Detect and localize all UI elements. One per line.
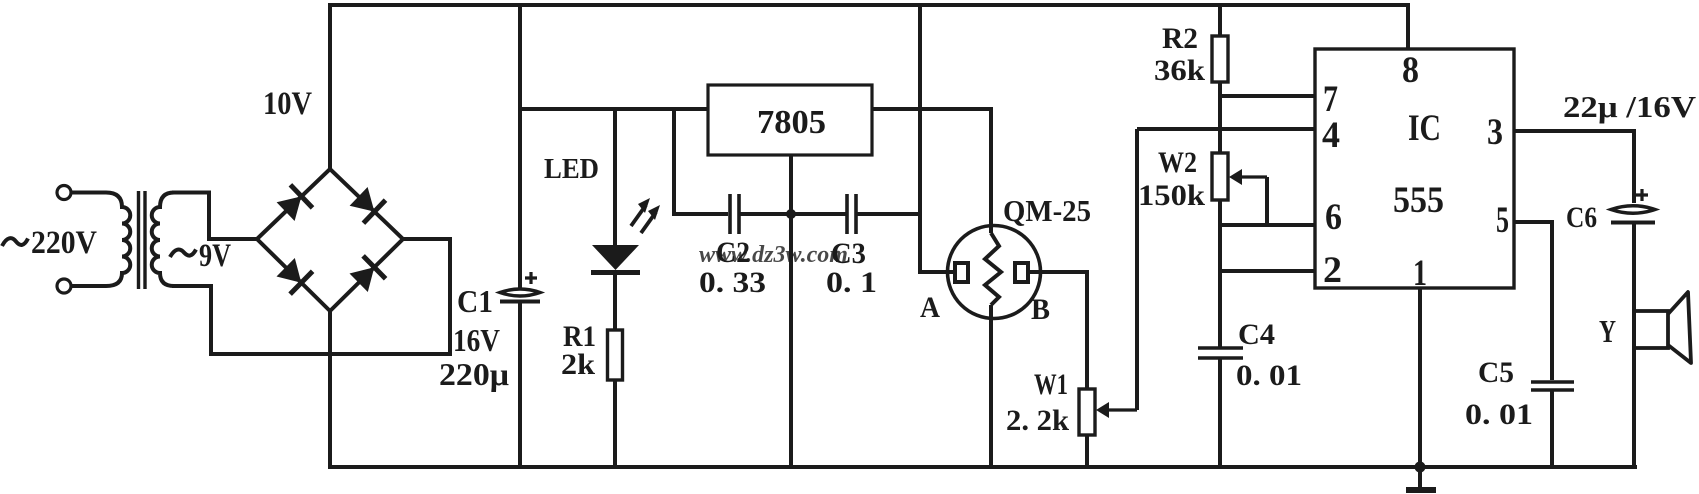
svg-text:C6: C6 <box>1566 201 1597 234</box>
svg-text:2k: 2k <box>561 348 595 381</box>
wire W1 wiper to pin4 <box>1135 129 1139 410</box>
LED D5 <box>592 245 639 270</box>
wire C2 drop <box>674 109 728 214</box>
diode D1 top-left <box>277 196 302 221</box>
wire R2 branch top <box>1218 5 1222 36</box>
svg-text:2: 2 <box>1323 250 1342 291</box>
junction dot 7805 gnd <box>786 209 796 219</box>
svg-text:C1: C1 <box>457 283 493 319</box>
wire R2 to W2 <box>1218 82 1222 153</box>
speaker Y <box>1634 311 1668 348</box>
wire pin2 <box>1220 269 1315 273</box>
capacitor C6 <box>1611 206 1655 214</box>
diode D3 bottom-left <box>277 258 302 283</box>
bridge rectifier diamond <box>257 169 403 311</box>
wire pin3 to C6 <box>1514 131 1634 203</box>
wire W2 wiper down to pin6 line <box>1265 177 1269 225</box>
svg-text:www.dz3w.com: www.dz3w.com <box>699 242 848 268</box>
wire 5V down to sensor A <box>920 5 955 272</box>
svg-text:Y: Y <box>1599 313 1616 349</box>
node input terminal top <box>57 186 71 200</box>
W2 wiper arrow <box>1229 169 1242 185</box>
svg-text:10V: 10V <box>263 86 312 122</box>
potentiometer W1 body <box>1079 389 1095 435</box>
capacitor C1 <box>500 289 540 296</box>
wire 7805 output <box>872 109 991 233</box>
transformer T1 secondary <box>152 193 174 287</box>
svg-text:IC: IC <box>1408 108 1441 149</box>
resistor R1 <box>608 330 623 380</box>
wire C1 branch lower <box>518 302 522 468</box>
capacitor C5 <box>1531 380 1574 384</box>
wire LED to R1 <box>613 272 617 330</box>
wire W1 to bottom rail <box>1085 435 1089 467</box>
wire 7805 gnd pin <box>789 155 793 467</box>
LED arrows <box>631 205 646 226</box>
C1 plus sign <box>525 272 537 284</box>
svg-text:9V: 9V <box>199 238 231 274</box>
capacitor C4 <box>1198 346 1243 350</box>
wire 10V feed to 7805 <box>520 107 708 111</box>
sensor terminal B square <box>1015 263 1028 282</box>
svg-text:A: A <box>920 291 940 324</box>
svg-text:16V: 16V <box>453 322 500 358</box>
wire C1 branch upper <box>518 5 522 289</box>
gas sensor QM-25 circle <box>948 226 1041 319</box>
node input terminal bottom <box>57 279 71 293</box>
potentiometer W2 body <box>1212 153 1228 200</box>
svg-text:W2: W2 <box>1158 146 1197 179</box>
svg-text:22μ /16V: 22μ /16V <box>1563 89 1697 124</box>
wire pin4 <box>1137 127 1315 131</box>
svg-text:0. 33: 0. 33 <box>699 266 766 299</box>
svg-text:QM-25: QM-25 <box>1003 193 1091 228</box>
svg-text:7: 7 <box>1323 79 1338 120</box>
svg-text:C5: C5 <box>1478 356 1514 389</box>
C6 plus sign <box>1636 189 1648 201</box>
diode D2 top-right <box>350 187 375 212</box>
svg-text:555: 555 <box>1393 180 1444 221</box>
wire pin7 <box>1220 94 1315 98</box>
wire secondary top to bridge left <box>172 193 257 240</box>
svg-text:5: 5 <box>1496 200 1509 241</box>
svg-text:150k: 150k <box>1138 179 1205 212</box>
svg-text:3: 3 <box>1487 112 1503 153</box>
wire R1 to bottom rail <box>613 380 617 467</box>
wire C3 to 5V line <box>856 212 920 216</box>
svg-text:R2: R2 <box>1162 22 1198 55</box>
svg-text:4: 4 <box>1322 115 1340 156</box>
wire top rail with pin8 drop <box>330 5 1408 169</box>
svg-text:B: B <box>1031 293 1050 326</box>
wire bottom rail <box>330 311 1637 467</box>
svg-text:8: 8 <box>1402 50 1419 91</box>
svg-text:C4: C4 <box>1238 318 1275 351</box>
wire pin5 to C5 <box>1514 222 1552 380</box>
wire main branch W2 to C4 <box>1218 200 1222 347</box>
svg-text:LED: LED <box>544 153 599 185</box>
junction dot ground <box>1415 462 1426 473</box>
sensor terminal A square <box>955 263 968 282</box>
capacitor C2 <box>728 194 732 234</box>
svg-text:1: 1 <box>1413 253 1427 294</box>
wire C2 to C3 <box>739 212 846 216</box>
svg-text:0. 01: 0. 01 <box>1236 359 1302 392</box>
svg-text:36k: 36k <box>1154 54 1205 87</box>
svg-text:W1: W1 <box>1034 368 1068 401</box>
label ~220V <box>2 238 28 246</box>
diode D4 bottom-right <box>350 267 375 292</box>
svg-text:6: 6 <box>1325 197 1342 238</box>
svg-text:220μ: 220μ <box>439 356 509 392</box>
svg-text:0. 1: 0. 1 <box>826 266 877 299</box>
svg-text:0. 01: 0. 01 <box>1465 398 1533 431</box>
label ~9V <box>170 250 196 258</box>
svg-text:7805: 7805 <box>757 104 826 141</box>
wire pin1 to ground <box>1418 288 1422 467</box>
wire C6 to speaker <box>1632 222 1636 467</box>
IC U1 555 box <box>1315 49 1514 288</box>
resistor R2 <box>1212 36 1228 82</box>
capacitor C3 <box>845 194 849 234</box>
wire secondary bottom to bridge right <box>172 239 450 354</box>
transformer T1 primary <box>71 193 130 287</box>
wire heater to bottom rail <box>989 305 993 467</box>
svg-text:220V: 220V <box>31 225 97 261</box>
wire B to W1 <box>1028 272 1087 389</box>
wire C5 to bottom rail <box>1550 390 1554 467</box>
wire LED branch upper <box>613 109 617 246</box>
ground symbol <box>1418 467 1422 489</box>
transformer core <box>137 191 140 289</box>
regulator U2 7805 box <box>708 85 872 155</box>
W1 wiper arrow <box>1096 402 1109 418</box>
svg-text:2. 2k: 2. 2k <box>1006 404 1069 437</box>
sensor heater zigzag <box>985 233 1001 305</box>
wire C4 to bottom rail <box>1218 358 1222 467</box>
wire pin6 <box>1220 223 1315 227</box>
